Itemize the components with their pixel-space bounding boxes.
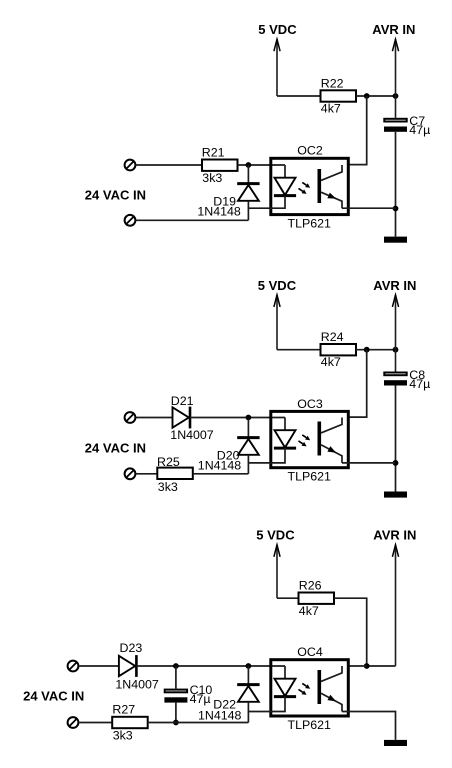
junction emitter/AVR line — [393, 460, 399, 466]
svg-text:47µ: 47µ — [190, 692, 211, 706]
svg-text:3k3: 3k3 — [202, 171, 222, 185]
OC2 internal LED cathode lead — [248, 196, 285, 209]
svg-text:R21: R21 — [202, 145, 225, 159]
svg-text:OC4: OC4 — [297, 645, 323, 659]
svg-text:24 VAC IN: 24 VAC IN — [85, 187, 146, 202]
OC3 light arrow 1 — [302, 435, 306, 438]
OC4 light arrow 2 — [299, 689, 303, 692]
5 VDC supply arrow (section 2) — [276, 295, 278, 350]
resistor R27 — [112, 717, 148, 728]
OC2 internal LED — [275, 178, 296, 195]
wire OC4 emitter to ground — [342, 712, 396, 740]
wire C10 bottom lead — [175, 703, 177, 723]
resistor R22 — [321, 90, 357, 101]
wire R24 to AVR IN net — [356, 349, 396, 351]
OC4 phototransistor emitter — [321, 693, 342, 711]
svg-text:D21: D21 — [171, 394, 194, 408]
wire 5 VDC to R26 — [277, 597, 299, 599]
svg-text:AVR IN: AVR IN — [373, 528, 416, 543]
optocoupler OC4 body — [271, 660, 349, 716]
svg-text:5 VDC: 5 VDC — [258, 278, 297, 293]
resistor R21 — [202, 160, 238, 171]
resistor R26 — [299, 593, 335, 604]
OC3 internal LED cathode lead — [248, 448, 285, 463]
svg-text:AVR IN: AVR IN — [373, 278, 416, 293]
OC2 light arrow 1 — [302, 182, 306, 185]
svg-text:1N4007: 1N4007 — [115, 677, 159, 691]
diode D23 — [119, 656, 135, 676]
junction D21/D20 — [246, 415, 252, 421]
OC4 phototransistor collector — [321, 666, 342, 681]
junction R22/AVR line — [393, 93, 399, 99]
ground (section 3) — [384, 740, 407, 746]
wire bottom terminal to D19 — [136, 219, 249, 221]
wire junction to OC2 collector — [348, 96, 366, 165]
svg-text:4k7: 4k7 — [321, 101, 341, 115]
wire D21 to OC3 LED — [190, 417, 285, 419]
svg-text:5 VDC: 5 VDC — [258, 22, 297, 37]
OC3 phototransistor emitter — [321, 445, 342, 463]
OC4 internal LED — [275, 679, 296, 696]
svg-text:4k7: 4k7 — [299, 604, 319, 618]
svg-text:OC2: OC2 — [297, 144, 323, 158]
OC3 phototransistor base bar — [317, 422, 321, 456]
wire D23 to OC4 LED — [136, 665, 285, 667]
wire terminal to R21 — [136, 164, 203, 166]
svg-text:R26: R26 — [299, 579, 322, 593]
svg-text:AVR IN: AVR IN — [372, 22, 415, 37]
wire terminal to D23 — [79, 665, 119, 667]
OC4 light arrow 1 — [302, 683, 306, 686]
OC2 phototransistor emitter — [321, 192, 342, 208]
svg-text:D23: D23 — [120, 641, 143, 655]
svg-text:R24: R24 — [321, 330, 344, 344]
OC2 light arrow 2 — [299, 188, 303, 191]
capacitor C8 — [384, 373, 406, 376]
5 VDC supply arrow (section 1) — [276, 39, 278, 96]
wire AVR line to collector node — [367, 665, 396, 667]
resistor R25 — [157, 468, 193, 479]
wire junction to OC3 collector — [348, 350, 366, 417]
AVR IN arrow (section 2) — [395, 295, 397, 372]
wire C10 top lead — [175, 666, 177, 689]
wire R25 to D20 — [193, 473, 249, 475]
OC2 phototransistor collector — [321, 165, 342, 180]
input terminal J3b — [68, 717, 79, 728]
OC4 internal LED anode lead — [284, 666, 286, 679]
diode D21 — [173, 407, 189, 427]
diode D19 — [247, 165, 249, 184]
junction D23/C10 — [173, 663, 179, 669]
svg-text:47µ: 47µ — [409, 123, 430, 137]
ground (section 2) — [384, 492, 407, 498]
optocoupler OC3 body — [271, 411, 349, 467]
wire terminal to D21 — [136, 417, 173, 419]
svg-text:24 VAC IN: 24 VAC IN — [85, 441, 146, 456]
svg-text:4k7: 4k7 — [321, 355, 341, 369]
wire OC2 emitter to AVR line — [342, 207, 396, 209]
svg-text:TLP621: TLP621 — [288, 718, 332, 732]
wire C8 to ground — [395, 386, 397, 492]
svg-text:5 VDC: 5 VDC — [256, 528, 295, 543]
input terminal J1b — [125, 215, 136, 226]
wire R26 to OC4 collector node — [334, 598, 367, 666]
wire R22 to AVR IN net — [356, 95, 396, 97]
OC4 phototransistor base bar — [317, 670, 321, 704]
OC3 internal LED — [275, 430, 296, 447]
wire R21 to OC2 LED — [238, 164, 286, 166]
svg-text:R27: R27 — [112, 702, 135, 716]
junction C10/bottom wire — [173, 720, 179, 726]
junction R22/collector — [364, 93, 370, 99]
capacitor C7 — [384, 119, 406, 122]
svg-text:1N4148: 1N4148 — [198, 459, 242, 473]
optocoupler OC2 body — [271, 158, 349, 214]
input terminal J3a — [68, 661, 79, 672]
OC4 emitter arrowhead — [327, 695, 336, 702]
wire 5 VDC to R24 — [277, 349, 321, 351]
junction top wire/D22 — [246, 663, 252, 669]
junction R24/collector — [364, 347, 370, 353]
junction collector/R26/AVR — [364, 663, 370, 669]
AVR IN arrow (section 3) — [395, 545, 397, 666]
wire terminal to R27 — [79, 722, 113, 724]
svg-text:1N4148: 1N4148 — [197, 205, 241, 219]
input terminal J1a — [125, 160, 136, 171]
OC4 internal LED cathode lead — [248, 697, 285, 712]
5 VDC supply arrow (section 3) — [276, 545, 278, 598]
svg-text:3k3: 3k3 — [158, 480, 178, 494]
OC3 internal LED anode lead — [284, 418, 286, 431]
wire terminal to R25 — [136, 473, 158, 475]
svg-text:OC3: OC3 — [297, 397, 323, 411]
AVR IN arrow (section 1) — [395, 39, 397, 118]
svg-text:TLP621: TLP621 — [288, 470, 332, 484]
junction emitter/AVR line — [393, 206, 399, 212]
OC2 emitter arrowhead — [327, 193, 336, 199]
capacitor C10 — [165, 690, 187, 693]
input terminal J2b — [125, 468, 136, 479]
ground (section 1) — [384, 237, 407, 243]
svg-text:1N4007: 1N4007 — [170, 428, 214, 442]
wire C7 to ground — [395, 132, 397, 237]
wire 5 VDC to R22 — [277, 95, 321, 97]
OC3 light arrow 2 — [299, 441, 303, 444]
wire R27 to D22 — [148, 722, 249, 724]
svg-text:TLP621: TLP621 — [288, 217, 332, 231]
svg-text:3k3: 3k3 — [113, 729, 133, 743]
diode D20 — [247, 419, 249, 438]
wire OC3 emitter to AVR line — [342, 462, 396, 464]
junction R24/AVR line — [393, 347, 399, 353]
node junction R21/D19 — [246, 162, 252, 168]
svg-text:1N4148: 1N4148 — [198, 709, 242, 723]
wire OC4 collector pin — [348, 665, 366, 667]
input terminal J2a — [125, 412, 136, 423]
OC3 emitter arrowhead — [327, 446, 336, 453]
diode D22 — [247, 666, 249, 685]
svg-text:24 VAC IN: 24 VAC IN — [23, 689, 84, 704]
resistor R24 — [321, 344, 357, 355]
svg-text:47µ: 47µ — [409, 377, 430, 391]
svg-text:R22: R22 — [321, 76, 344, 90]
OC2 phototransistor base bar — [317, 169, 321, 203]
OC3 phototransistor collector — [321, 418, 342, 433]
OC2 internal LED anode lead — [284, 165, 286, 178]
